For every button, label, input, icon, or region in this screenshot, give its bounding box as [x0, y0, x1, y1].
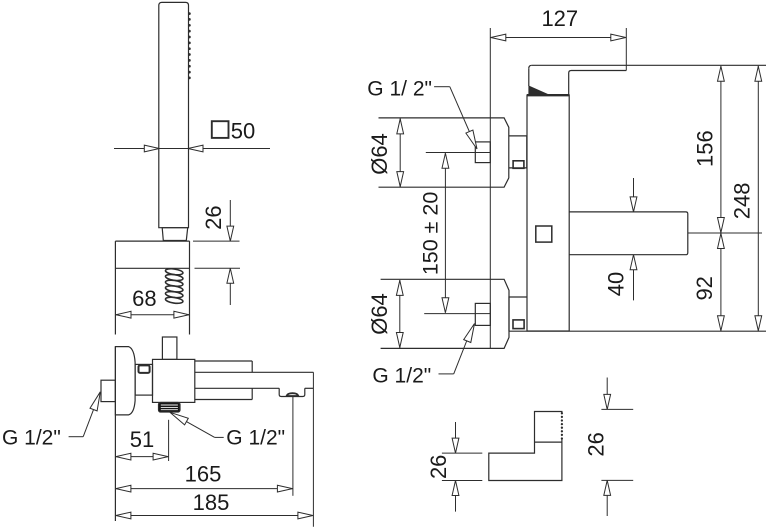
bottom union nipple G 1/2	[475, 303, 490, 325]
svg-text:248: 248	[730, 183, 755, 220]
svg-text:26: 26	[584, 432, 609, 456]
leader arrow to hex connector	[69, 436, 84, 438]
right 26 dimension line	[606, 378, 608, 410]
arrow 68 right	[174, 311, 189, 318]
svg-text:G 1/2": G 1/2"	[226, 426, 285, 449]
top union hex	[509, 136, 527, 168]
L-part internal line	[535, 441, 562, 443]
dimension diam 64 bottom	[399, 280, 401, 348]
wand hose adapter	[162, 228, 188, 241]
L-shaped part outline	[489, 412, 562, 481]
extension line spout tip	[312, 372, 314, 526]
spout arm top edge	[195, 371, 314, 373]
dimension diam 64 top	[399, 118, 401, 187]
cartridge connector	[135, 364, 152, 395]
svg-text:Ø64: Ø64	[367, 133, 392, 175]
svg-text:Ø64: Ø64	[367, 293, 392, 335]
mixer body	[153, 359, 195, 402]
bottom union small square	[513, 320, 524, 329]
dimension 156	[720, 66, 722, 233]
aerator dome	[287, 393, 299, 396]
top union centerline	[426, 152, 476, 154]
handle bar front view	[569, 212, 688, 255]
svg-text:92: 92	[692, 276, 717, 300]
svg-text:51: 51	[130, 427, 154, 452]
spout top edge and 156/248 extension line	[532, 64, 766, 66]
dimension 185 line	[115, 515, 313, 517]
svg-text:26: 26	[426, 455, 451, 479]
dimension 127 line	[490, 37, 626, 39]
arrow 68 left	[116, 311, 131, 318]
spout mount block	[195, 360, 252, 362]
svg-text:40: 40	[604, 272, 629, 296]
svg-text:G 1/ 2": G 1/ 2"	[367, 78, 432, 101]
riser chamfer filled	[529, 86, 548, 95]
wall plane extension line	[489, 28, 491, 348]
wall bracket box top edge	[115, 240, 189, 242]
wall line left (box to flange gap)	[114, 241, 116, 334]
dimension 92	[720, 233, 722, 331]
dimension 26 line upper part	[229, 200, 231, 241]
spout arm bottom edge	[195, 387, 279, 389]
spout riser left edge	[528, 68, 530, 86]
dimension 68 line	[115, 314, 189, 316]
spout riser right edge	[568, 73, 570, 95]
wall flange side view	[115, 347, 135, 415]
svg-text:50: 50	[231, 118, 255, 143]
mixer body front	[527, 95, 569, 331]
spout aerator recess	[279, 388, 305, 396]
coiled hose spring	[165, 268, 183, 304]
dimension 51 line	[115, 456, 168, 458]
shower outlet threaded G 1/2	[159, 403, 181, 413]
bottom union centerline	[424, 313, 475, 315]
svg-text:68: 68	[132, 286, 156, 311]
leader arrow to shower outlet	[215, 436, 224, 438]
dimension 248	[757, 66, 759, 331]
box right edge	[189, 241, 191, 334]
arrow 26 bottom	[227, 268, 234, 283]
svg-text:165: 165	[185, 462, 222, 487]
arrow 26 top	[227, 226, 234, 241]
hex wall connector G 1/2	[101, 380, 115, 401]
dimension 150 +- 20	[444, 153, 446, 313]
leader to bottom nipple	[439, 373, 454, 375]
square symbol for 50	[212, 121, 229, 138]
body square detail	[536, 226, 552, 242]
svg-text:26: 26	[201, 205, 226, 229]
dimension 26 upper extension line	[193, 240, 240, 242]
bottom union hex	[509, 297, 527, 331]
body top thick edge	[527, 94, 569, 96]
left 26 dimension line	[455, 422, 457, 453]
L-part dotted spray edge	[561, 413, 563, 439]
hand shower spray nozzle dots	[188, 12, 191, 79]
bottom union outline	[381, 279, 509, 348]
wall line lower	[114, 347, 116, 521]
top union small square	[513, 161, 524, 169]
spout arm bottom edge front view	[569, 71, 627, 74]
spout tip extension line	[625, 28, 627, 71]
arrow right of wand	[188, 145, 203, 152]
left 26 extension lines	[442, 452, 482, 454]
arrow left of wand	[144, 145, 159, 152]
svg-text:185: 185	[193, 490, 230, 515]
box internal line	[115, 267, 189, 269]
right 26 extension lines	[601, 408, 633, 410]
handle on top	[162, 337, 177, 359]
svg-text:156: 156	[693, 130, 718, 167]
dimension 26 lower extension line	[195, 267, 241, 269]
body bottom and extension line	[509, 330, 766, 332]
svg-text:G 1/2": G 1/2"	[2, 427, 61, 450]
hand shower wand	[159, 2, 189, 227]
extension line aerator	[292, 397, 294, 496]
svg-text:127: 127	[541, 6, 578, 31]
wand width dimension line 50	[114, 148, 270, 150]
handle centerline extension	[688, 232, 762, 234]
dimension 26 line lower part	[229, 268, 231, 305]
top union nipple G 1/2	[475, 142, 490, 163]
svg-text:150 ± 20: 150 ± 20	[419, 192, 443, 276]
leader to top nipple	[434, 86, 450, 88]
dimension 40	[633, 178, 635, 212]
extension line outlet center	[168, 420, 170, 461]
top union outline	[379, 118, 509, 187]
svg-text:G 1/2": G 1/2"	[372, 364, 431, 387]
connector detail square	[139, 365, 150, 373]
dimension 165 line	[115, 488, 293, 490]
